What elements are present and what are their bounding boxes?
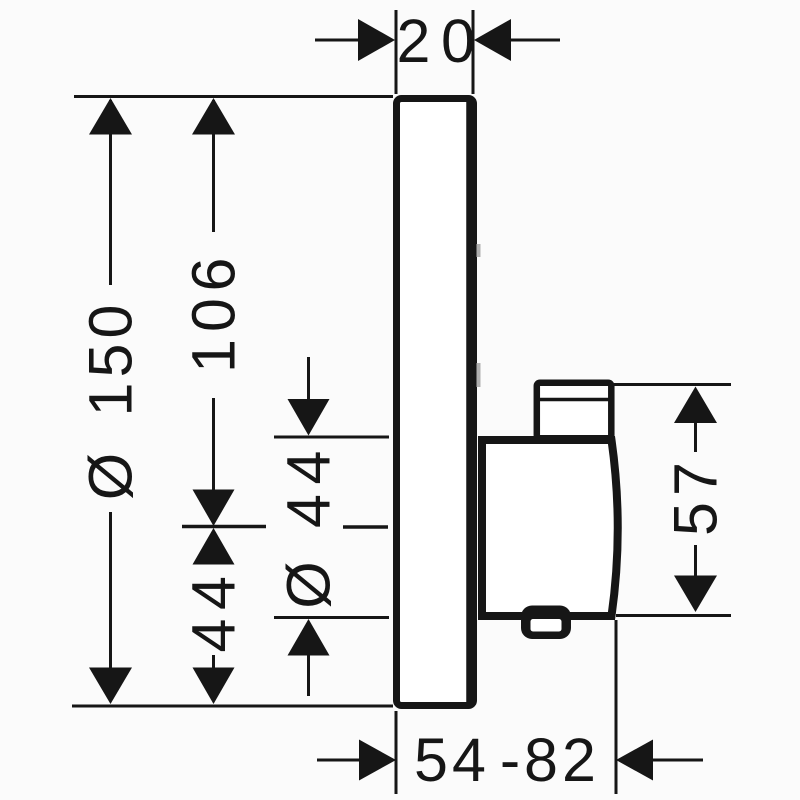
svg-text:2: 2 [397, 7, 431, 75]
arrow 106 top [192, 98, 235, 135]
dim 106 line lower [212, 398, 215, 494]
arrow 44 up (at centerline) [193, 528, 235, 565]
svg-text:0: 0 [77, 305, 145, 339]
svg-text:5: 5 [662, 502, 730, 536]
bottom tab [521, 606, 571, 640]
dim 54-82 right extension line [615, 620, 618, 794]
arrow 150 bottom [89, 668, 132, 705]
svg-text:5: 5 [77, 344, 145, 378]
handle cap step [537, 383, 612, 439]
arrow 54-82 left [359, 740, 396, 781]
arrow d44 down (above) [288, 399, 330, 436]
svg-text:4: 4 [275, 451, 343, 485]
dim 150 line lower [109, 512, 112, 688]
dim 44 left line lower [212, 655, 215, 700]
dim d44 bottom extension line [274, 616, 389, 619]
arrow 57 up [674, 387, 717, 424]
dim 150 line upper [109, 100, 112, 285]
svg-text:-: - [500, 726, 520, 794]
dim d44 top extension line [274, 436, 389, 439]
top reference line [74, 95, 393, 98]
centerline tick left [182, 525, 266, 529]
arrow 20 right [474, 19, 511, 61]
dim 57 top extension line [613, 383, 731, 386]
arrow 106 bottom (down at centerline) [193, 490, 235, 527]
svg-text:1: 1 [77, 383, 145, 417]
plate clip nub lower [477, 363, 481, 387]
svg-text:4: 4 [452, 726, 486, 794]
bottom reference line [72, 705, 393, 708]
dim 20 right extension line [472, 10, 475, 94]
dim 106 line upper [212, 100, 215, 232]
svg-text:7: 7 [662, 462, 730, 496]
svg-text:4: 4 [180, 576, 248, 610]
svg-text:Ø: Ø [77, 453, 145, 500]
svg-text:8: 8 [524, 726, 558, 794]
dim 54-82 left line [317, 759, 362, 762]
svg-text:4: 4 [275, 494, 343, 528]
dim 54-82 right line [649, 759, 703, 762]
dim 20 left extension line [395, 10, 398, 94]
dim 20 right line [507, 39, 560, 42]
dim d44 line below [307, 645, 310, 696]
handle body [482, 440, 618, 616]
arrow 54-82 right [616, 740, 653, 781]
svg-text:6: 6 [180, 258, 248, 292]
centerline tick mid [343, 525, 388, 529]
dim 20 left line [315, 39, 362, 42]
dim 54-82 left extension line [395, 711, 398, 794]
svg-text:0: 0 [441, 7, 475, 75]
arrow 57 down [674, 576, 717, 613]
dim 57 bottom extension line [616, 614, 731, 617]
svg-text:Ø: Ø [275, 561, 343, 608]
cap inner line [540, 398, 609, 402]
dim 57 line lower [694, 545, 697, 582]
svg-text:2: 2 [562, 726, 596, 794]
svg-text:1: 1 [180, 339, 248, 373]
arrow 150 top [89, 98, 132, 135]
arrow d44 up (below) [288, 619, 330, 656]
svg-text:5: 5 [414, 726, 448, 794]
plate right edge thickening [466, 100, 471, 704]
plate clip nub upper [477, 244, 481, 257]
dim d44 line above [307, 357, 310, 410]
escutcheon plate [397, 99, 474, 706]
dim 57 line upper [694, 415, 697, 452]
svg-text:0: 0 [180, 298, 248, 332]
arrow 44 bottom [193, 668, 235, 705]
arrow 20 left [358, 19, 395, 61]
svg-text:4: 4 [180, 619, 248, 653]
